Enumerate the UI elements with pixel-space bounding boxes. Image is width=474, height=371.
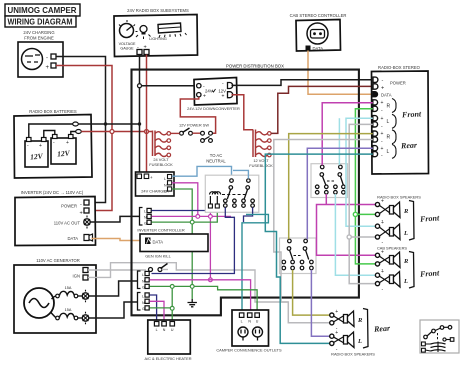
svg-text:+: + bbox=[381, 131, 384, 137]
svg-text:FUSEBLOCK: FUSEBLOCK bbox=[149, 162, 173, 167]
svg-text:-: - bbox=[382, 78, 384, 84]
svg-text:N: N bbox=[164, 183, 167, 187]
LNG bundle 2 generator feed bbox=[138, 271, 150, 290]
svg-text:+: + bbox=[66, 140, 69, 146]
svg-text:24V RADIO BOX SUBSYSTEMS: 24V RADIO BOX SUBSYSTEMS bbox=[127, 8, 189, 13]
downconverter 24V-12V bbox=[187, 78, 240, 112]
speaker rear L bbox=[330, 330, 362, 352]
switch gen ign kill bbox=[145, 254, 171, 272]
svg-text:L: L bbox=[142, 273, 144, 277]
speaker radio front R bbox=[375, 199, 409, 224]
wire inverter AC out to LNG bundle 1 bbox=[91, 216, 140, 222]
svg-text:INVERTER CONTROLLER: INVERTER CONTROLLER bbox=[137, 228, 184, 233]
svg-text:+: + bbox=[39, 143, 42, 149]
svg-text:+: + bbox=[381, 116, 384, 122]
wire grey generator ignition 2 loop to kill switch bbox=[88, 263, 288, 302]
battery B2 12V bbox=[51, 135, 76, 165]
stereo terminal power plus bbox=[373, 81, 406, 92]
svg-text:R: R bbox=[387, 104, 391, 110]
svg-text:L: L bbox=[142, 295, 144, 299]
svg-text:12V: 12V bbox=[57, 148, 71, 158]
svg-text:VOLTAGE: VOLTAGE bbox=[119, 42, 136, 46]
wire dark red fuse to stereo power plus bbox=[271, 86, 373, 133]
wire teal stereo rear L minus to rear speaker bbox=[265, 154, 373, 343]
svg-text:RADIO BOX BATTERIES: RADIO BOX BATTERIES bbox=[29, 109, 77, 114]
svg-text:Front: Front bbox=[419, 268, 440, 278]
svg-text:LIGHTING: LIGHTING bbox=[149, 37, 167, 41]
breaker 15A bottom bbox=[51, 308, 78, 320]
svg-text:+: + bbox=[150, 175, 153, 180]
junction open circle magenta at N2 bbox=[209, 278, 213, 282]
wire green charger G down to G1 line bbox=[172, 189, 192, 220]
wire red downconverter 12V plus to 12V fuseblock bbox=[232, 95, 254, 130]
connector inverter 110V AC out plug bbox=[84, 216, 90, 229]
fuseblock 24 volt bbox=[149, 131, 173, 168]
inverter controller box bbox=[137, 228, 208, 252]
ground symbol bbox=[188, 299, 197, 307]
heater box A/C electric bbox=[144, 320, 191, 361]
camper convenience outlets box bbox=[216, 310, 282, 353]
connector battery black output bbox=[73, 122, 79, 126]
svg-text:+: + bbox=[381, 100, 384, 106]
svg-text:UNIMOG CAMPER: UNIMOG CAMPER bbox=[8, 5, 77, 15]
wire purple stereo rear L plus to relay3 bbox=[307, 148, 373, 239]
alternator box 24V charging from engine bbox=[18, 30, 63, 77]
wire black bus C to downconverter 24V minus bbox=[142, 85, 197, 87]
svg-text:FROM ENGINE: FROM ENGINE bbox=[24, 36, 54, 41]
wire navy L3 to heater L bbox=[150, 295, 157, 321]
generator AC source symbol bbox=[24, 288, 54, 318]
wire pale cyan relay2 out to cab L plus bbox=[335, 194, 375, 275]
wire green branch radio R minus bbox=[355, 213, 375, 215]
LNG bundle 1 inverter AC in bbox=[140, 208, 152, 226]
svg-text:IGN: IGN bbox=[73, 274, 80, 279]
junction open circle bus C feed to downconverter bbox=[138, 84, 142, 88]
wire olive stereo rear R plus to relay3 bbox=[289, 134, 373, 240]
svg-text:Front: Front bbox=[401, 109, 422, 119]
junction open circle magenta charger N at N1 bbox=[196, 215, 200, 219]
wire grey generator ignition 1 to kill switch bbox=[88, 269, 146, 271]
svg-text:24V CHARGING: 24V CHARGING bbox=[23, 30, 54, 35]
cab stereo controller bbox=[290, 13, 347, 51]
svg-text:DATA: DATA bbox=[67, 236, 78, 241]
relay 3 cab speaker relay module bbox=[280, 238, 317, 274]
voltage gauge bbox=[119, 20, 138, 51]
svg-text:U: U bbox=[171, 328, 174, 332]
speaker cab R bbox=[375, 249, 409, 273]
svg-text:CAB STEREO CONTROLLER: CAB STEREO CONTROLLER bbox=[290, 13, 347, 18]
svg-text:L: L bbox=[387, 119, 390, 125]
wire black bus C subsystems minus down to charger bbox=[139, 55, 141, 175]
junction open circle green G2 ground bbox=[190, 285, 194, 289]
wire black bus A from alternator minus bbox=[56, 57, 106, 203]
speaker cab L bbox=[375, 269, 408, 292]
svg-text:FUSEBLOCK: FUSEBLOCK bbox=[249, 163, 273, 168]
wire magenta N3 to heater N bbox=[150, 301, 165, 321]
wire battery red to bus junctions bbox=[81, 131, 152, 133]
svg-text:GEN IGN KILL: GEN IGN KILL bbox=[145, 254, 171, 259]
speaker radio front L bbox=[375, 220, 408, 246]
svg-text:CAMPER CONVENIENCE OUTLETS: CAMPER CONVENIENCE OUTLETS bbox=[216, 348, 282, 353]
connector inverter data bbox=[84, 234, 93, 241]
junction open circle green G3 join bbox=[170, 306, 174, 310]
svg-text:L: L bbox=[403, 278, 408, 285]
svg-text:+: + bbox=[222, 94, 225, 100]
svg-text:12V POWER SW: 12V POWER SW bbox=[179, 123, 209, 128]
junction open circle green ground drop at G1 bbox=[190, 220, 194, 224]
stereo terminal data bbox=[373, 92, 392, 98]
fuseblock 12 volt bbox=[249, 130, 273, 169]
wire black downconverter 12V minus to stereo power minus bbox=[232, 80, 374, 86]
svg-text:+: + bbox=[203, 94, 206, 100]
power distribution box outline bbox=[132, 64, 359, 316]
svg-text:RADIO-BOX STEREO: RADIO-BOX STEREO bbox=[378, 65, 421, 70]
bracket rear group bbox=[363, 309, 368, 349]
wire orange controller data to stereo data bbox=[308, 51, 373, 95]
junction open circle green radio R minus bbox=[353, 212, 357, 216]
svg-text:12V: 12V bbox=[30, 151, 44, 161]
wire navy L1 line to relay bbox=[152, 207, 226, 211]
wire magenta relay2 out to radio R plus and cab R plus bbox=[317, 194, 376, 255]
wire orange inverter data to inverter controller bbox=[92, 239, 146, 241]
svg-text:+: + bbox=[381, 220, 384, 226]
breaker 15A top bbox=[52, 286, 78, 299]
wire green G3 to heater branch bbox=[150, 307, 171, 309]
svg-text:DATA: DATA bbox=[381, 93, 392, 98]
stereo terminal power minus bbox=[373, 77, 384, 84]
junction dot battery black at bus A bbox=[104, 122, 107, 125]
wire battery minus to black output connector bbox=[29, 124, 73, 137]
wire battery plus to red output connector bbox=[71, 132, 76, 135]
svg-text:24V-12V DOWNCONVERTER: 24V-12V DOWNCONVERTER bbox=[187, 106, 240, 111]
LNG bundle 3 heater feed bbox=[138, 293, 150, 312]
wire green stereo front R minus bus bbox=[355, 109, 375, 264]
svg-text:+: + bbox=[335, 330, 338, 336]
svg-text:G: G bbox=[164, 190, 167, 194]
junction open circle grey radio L minus bbox=[347, 235, 351, 239]
svg-text:+: + bbox=[381, 146, 384, 152]
svg-text:L: L bbox=[357, 338, 362, 345]
svg-text:12V: 12V bbox=[218, 89, 226, 94]
battery B1 12V bbox=[25, 138, 48, 168]
svg-text:+: + bbox=[381, 269, 384, 275]
svg-text:-: - bbox=[46, 56, 48, 62]
title box line 1 bbox=[5, 4, 80, 16]
svg-text:R: R bbox=[403, 208, 409, 215]
connector generator output 1 bbox=[78, 290, 89, 303]
wire red bus subsystems plus down to charger bbox=[146, 55, 148, 175]
wire navy relay1 switch2 output stub bbox=[244, 207, 253, 222]
svg-text:L: L bbox=[387, 149, 390, 155]
junction open circle magenta N1 coil bbox=[209, 215, 213, 219]
svg-text:+: + bbox=[381, 249, 384, 255]
wire magenta relay coil drop and N2 drop bbox=[209, 207, 211, 280]
bracket cab group bbox=[409, 252, 414, 289]
svg-text:N: N bbox=[248, 319, 251, 323]
svg-text:L: L bbox=[156, 328, 158, 332]
wire red fuse1 to 12V power switch bbox=[171, 132, 180, 134]
stereo terminal front right pair bbox=[373, 99, 396, 114]
wire navy relay1 output to L2 line bbox=[152, 207, 235, 273]
svg-text:POWER DISTRIBUTION BOX: POWER DISTRIBUTION BOX bbox=[226, 64, 284, 69]
wire red bus B from alternator plus bbox=[56, 66, 112, 211]
wire green long ground drop G1 to G2 to ground bbox=[191, 224, 193, 299]
relay 2 radio speaker relay module bbox=[311, 164, 348, 198]
radio box batteries bbox=[14, 109, 92, 178]
svg-text:15A: 15A bbox=[65, 308, 72, 312]
svg-text:DATA: DATA bbox=[313, 46, 324, 51]
wire green heater U drop bbox=[171, 288, 173, 321]
svg-text:INVERTER (24V DC → 110V AC): INVERTER (24V DC → 110V AC) bbox=[21, 190, 84, 195]
label to AC neutral bbox=[206, 153, 226, 164]
wire battery black to bus junction bbox=[78, 123, 139, 125]
svg-text:R: R bbox=[357, 317, 363, 324]
svg-text:-: - bbox=[80, 202, 82, 208]
wire green G1 line bbox=[152, 207, 218, 222]
wire grey stereo rear R minus to rear speaker bbox=[274, 140, 373, 323]
svg-text:R: R bbox=[387, 134, 391, 140]
speaker rear R bbox=[330, 309, 363, 332]
lamp fixture bbox=[158, 23, 187, 38]
connector battery red output bbox=[76, 130, 82, 134]
svg-text:TO AC: TO AC bbox=[210, 153, 223, 158]
svg-text:L: L bbox=[164, 177, 166, 181]
wire teal outlets L drop bbox=[242, 214, 268, 313]
svg-text:WIRING DIAGRAM: WIRING DIAGRAM bbox=[8, 17, 73, 27]
wire magenta N2 line to outlets N bbox=[150, 280, 251, 313]
svg-text:L: L bbox=[403, 230, 408, 237]
generator box 110V AC bbox=[14, 258, 96, 333]
svg-text:Rear: Rear bbox=[373, 324, 391, 334]
stereo terminal rear right pair bbox=[373, 130, 396, 145]
junction open circle battery red at charger red bus bbox=[145, 130, 149, 134]
junction dot battery black at bus C bbox=[138, 122, 141, 125]
wire olive relay3 out to rear R plus bbox=[293, 270, 330, 315]
svg-text:+: + bbox=[46, 65, 50, 71]
charger 24V box bbox=[136, 172, 175, 196]
svg-text:+: + bbox=[335, 309, 338, 315]
wire steel blue branch to relay1 switch2 top bbox=[233, 170, 248, 178]
wire purple relay3 out to rear L plus bbox=[311, 270, 329, 336]
svg-text:RADIO BOX SPEAKERS: RADIO BOX SPEAKERS bbox=[331, 352, 375, 357]
stereo terminal front left pair bbox=[373, 114, 396, 129]
svg-text:POWER: POWER bbox=[61, 204, 77, 209]
title box line 2 bbox=[5, 16, 76, 27]
junction open circle battery red at bus B bbox=[110, 130, 114, 134]
wire green G2 line to outlets U bbox=[150, 286, 258, 313]
wire magenta stereo front R plus to relay2 bbox=[322, 103, 373, 165]
switch 12V power sw bbox=[179, 123, 212, 143]
svg-text:A/C & ELECTRIC HEATER: A/C & ELECTRIC HEATER bbox=[144, 356, 191, 361]
stereo terminal rear left pair bbox=[373, 144, 396, 159]
wire magenta charger N down to N1 line bbox=[172, 183, 198, 215]
light bulb icon bbox=[136, 26, 167, 42]
svg-text:+: + bbox=[381, 86, 384, 92]
wire red downconverter 24V plus loop to 12V power switch bbox=[180, 97, 215, 133]
legend relay box bbox=[420, 320, 459, 353]
svg-text:24V: 24V bbox=[205, 89, 213, 94]
svg-text:U: U bbox=[256, 319, 259, 323]
svg-text:Front: Front bbox=[419, 213, 440, 223]
svg-text:N: N bbox=[163, 328, 166, 332]
svg-text:GAUGE: GAUGE bbox=[120, 47, 134, 51]
radio box subsystems box bbox=[114, 8, 198, 57]
relay 1 transfer relay module bbox=[205, 175, 258, 212]
subsystems minus plus terminals bbox=[137, 45, 149, 55]
svg-text:+: + bbox=[381, 199, 384, 205]
svg-text:L: L bbox=[241, 319, 243, 323]
connector generator output 2 bbox=[78, 312, 89, 325]
inverter box 24VDC to 110VAC bbox=[15, 190, 96, 246]
junction open circle green G2 heater branch bbox=[170, 285, 174, 289]
svg-text:15A: 15A bbox=[65, 286, 72, 290]
wire pale cyan branch to relay2 B bbox=[338, 118, 340, 165]
svg-text:L: L bbox=[144, 210, 146, 214]
svg-text:+: + bbox=[80, 211, 83, 217]
wire generator breaker1 to LNG bundle 2 bbox=[89, 281, 137, 296]
wire steel blue charger L to relay1 AC feed bbox=[172, 166, 232, 178]
radio-box stereo unit bbox=[372, 65, 429, 174]
svg-text:POWER: POWER bbox=[390, 81, 406, 86]
wire generator breaker2 to LNG bundle 3 bbox=[89, 302, 137, 318]
svg-text:110V AC OUT: 110V AC OUT bbox=[54, 221, 81, 226]
svg-text:R: R bbox=[403, 258, 409, 265]
svg-text:110V AC GENERATOR: 110V AC GENERATOR bbox=[36, 258, 80, 263]
svg-text:NEUTRAL: NEUTRAL bbox=[206, 159, 226, 164]
wire pale cyan stereo front L plus bus bbox=[346, 118, 375, 226]
wire grey stereo front L minus bus bbox=[349, 124, 375, 283]
svg-text:Rear: Rear bbox=[400, 140, 418, 150]
wire battery series jumper bbox=[44, 131, 55, 138]
bracket radio front group bbox=[409, 201, 414, 241]
svg-text:DATA: DATA bbox=[153, 240, 164, 245]
wire magenta N1 line bbox=[152, 215, 232, 217]
wire grey branch radio L minus bbox=[349, 236, 375, 238]
